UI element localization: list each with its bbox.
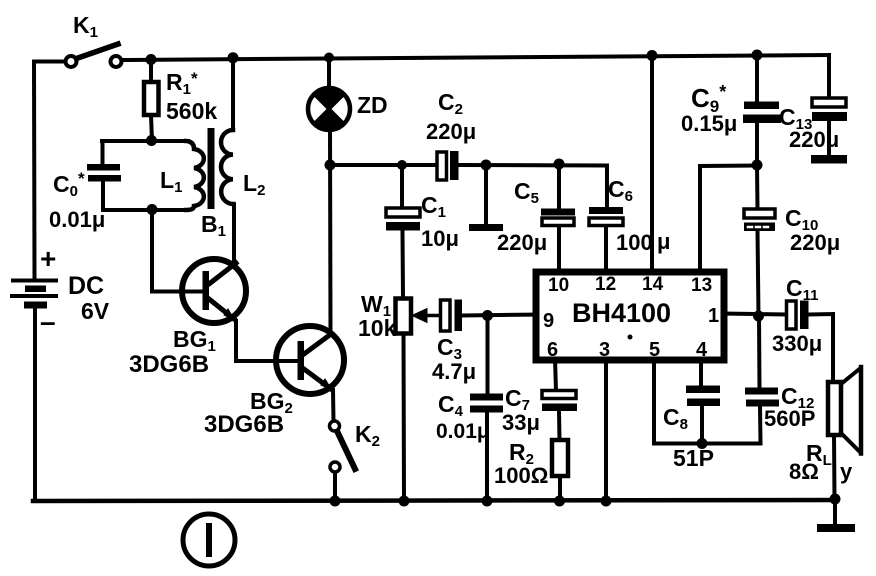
wire C2 node bar stub bbox=[484, 165, 488, 224]
svg-text:13: 13 bbox=[691, 275, 712, 296]
wire C9 bottom stub bbox=[755, 123, 759, 165]
node tank top bbox=[146, 135, 157, 146]
wire pin3 to ground rail bbox=[604, 358, 608, 501]
capacitor C5 bbox=[541, 209, 575, 216]
wire C12 bottom stub bbox=[758, 406, 763, 443]
node ZD bottom bbox=[325, 160, 336, 171]
svg-text:14: 14 bbox=[642, 274, 664, 295]
lamp ZD bbox=[308, 88, 350, 130]
switch K2 bbox=[330, 421, 340, 431]
node tank bottom bbox=[147, 204, 158, 215]
wire pin4 to C8 bbox=[699, 358, 703, 386]
capacitor C8 bbox=[686, 386, 720, 394]
wire top rail to pin14 bbox=[650, 56, 654, 276]
wire W1 bottom rail bbox=[402, 333, 407, 501]
inductor L1 bbox=[186, 141, 204, 210]
battery B+ bbox=[10, 279, 58, 309]
wire C0 top stub bbox=[101, 141, 105, 164]
svg-text:y: y bbox=[840, 459, 853, 484]
wire pin5 down and C8/C12 bottom rail bbox=[654, 358, 761, 444]
svg-text:μ: μ bbox=[657, 229, 670, 254]
C13 terminal bar bbox=[811, 155, 847, 164]
core B1 bbox=[208, 128, 215, 209]
capacitor C3 bbox=[441, 300, 451, 331]
svg-text:560k: 560k bbox=[166, 98, 217, 124]
capacitor C1 bbox=[386, 208, 420, 217]
svg-text:10μ: 10μ bbox=[421, 226, 459, 251]
svg-text:51P: 51P bbox=[673, 445, 714, 471]
wire R1 bottom stub bbox=[151, 115, 152, 141]
wire bottom ground rail bbox=[33, 500, 835, 501]
node C9 bottom bbox=[752, 160, 763, 171]
svg-text:ZD: ZD bbox=[357, 92, 388, 118]
node C1 top bbox=[397, 160, 407, 170]
wire C9 top stub bbox=[755, 55, 759, 102]
node top rail at pin14 wire bbox=[647, 50, 658, 61]
figure number circle 1 bbox=[183, 514, 235, 566]
node R2 ground bbox=[554, 496, 565, 507]
capacitor C13 bbox=[812, 98, 846, 107]
wire speaker to ground rail bbox=[832, 435, 837, 499]
wire battery bottom to ground rail bbox=[33, 309, 37, 501]
wire top rail left segment bbox=[34, 60, 65, 64]
svg-text:4.7μ: 4.7μ bbox=[432, 359, 476, 384]
svg-text:0.01μ: 0.01μ bbox=[49, 207, 105, 232]
svg-text:10k: 10k bbox=[358, 315, 397, 341]
switch K1 bbox=[66, 56, 77, 67]
wire BG2 emitter to K2 bbox=[331, 390, 336, 421]
capacitor C11 bbox=[787, 301, 797, 329]
wire L2 top stub bbox=[231, 58, 235, 130]
wire tank top rail bbox=[102, 139, 188, 143]
svg-text:3: 3 bbox=[599, 339, 610, 361]
wire ZD bottom to BG2 collector bbox=[328, 129, 333, 333]
node pin3 ground bbox=[601, 496, 612, 507]
svg-text:5: 5 bbox=[649, 339, 660, 361]
svg-text:1: 1 bbox=[708, 305, 719, 327]
wire C5 to pin10 bbox=[557, 225, 561, 275]
svg-text:–: – bbox=[40, 306, 56, 337]
capacitor C2 bbox=[437, 152, 447, 180]
node C4 ground bbox=[482, 496, 493, 507]
resistor R1 bbox=[144, 82, 159, 115]
svg-text:0.01μ: 0.01μ bbox=[436, 420, 490, 443]
wire R2 to ground rail bbox=[558, 476, 562, 501]
capacitor C0 bbox=[87, 164, 121, 182]
node top rail at C9 bbox=[752, 50, 763, 61]
wire top rail main bbox=[121, 55, 829, 60]
wire C8 bottom stub bbox=[700, 406, 704, 444]
wire tank to BG1 base bbox=[152, 210, 202, 292]
node speaker ground bbox=[830, 494, 841, 505]
capacitor C12 bbox=[745, 388, 778, 395]
wire C5 top stub bbox=[557, 164, 561, 209]
wire C13 top corner bbox=[827, 55, 831, 98]
node top rail at L2 bbox=[228, 52, 239, 63]
wire C2 right to C6 corner bbox=[459, 165, 607, 207]
svg-text:9: 9 bbox=[543, 310, 554, 332]
potentiometer W1 bbox=[396, 299, 412, 334]
electrode bar at C2 node bbox=[469, 224, 503, 231]
wire C6 to pin12 bbox=[604, 225, 608, 275]
svg-text:330μ: 330μ bbox=[772, 331, 822, 356]
wire ZD top stub bbox=[327, 58, 331, 87]
svg-text:10: 10 bbox=[548, 275, 569, 296]
wire C7 to R2 bbox=[557, 411, 562, 440]
capacitor C7 bbox=[542, 391, 576, 399]
transistor BG2 bbox=[276, 326, 344, 394]
wire pin1 to C11 bbox=[722, 314, 786, 315]
wire C9 node to pin13 bbox=[700, 166, 757, 276]
wire C10 top stub bbox=[755, 166, 760, 210]
node W1 ground bbox=[399, 496, 410, 507]
node C2 right bbox=[481, 160, 492, 171]
transistor BG1 bbox=[182, 259, 246, 323]
svg-text:6V: 6V bbox=[81, 298, 110, 324]
svg-text:220μ: 220μ bbox=[790, 230, 840, 255]
wire C1 top stub bbox=[400, 165, 404, 208]
wire BG1 emitter to BG2 base bbox=[236, 321, 297, 361]
node C8 bottom bbox=[697, 438, 708, 449]
resistor R2 bbox=[552, 440, 568, 476]
svg-text:4: 4 bbox=[696, 339, 708, 361]
wire C1 bottom to W1 bbox=[401, 231, 406, 298]
wire pin6 to C7 bbox=[555, 358, 556, 391]
node top rail at ZD bbox=[324, 53, 334, 63]
wire C13 bottom stub bbox=[827, 121, 831, 155]
svg-text:3DG6B: 3DG6B bbox=[204, 411, 284, 438]
node C5 top bbox=[554, 159, 565, 170]
wire tank bottom rail bbox=[103, 208, 188, 212]
wire C12 top stub bbox=[757, 316, 762, 388]
svg-text:BH4100: BH4100 bbox=[572, 298, 671, 328]
svg-text:100Ω: 100Ω bbox=[494, 463, 548, 488]
svg-text:220μ: 220μ bbox=[426, 119, 476, 144]
scan speck inside IC bbox=[628, 335, 633, 340]
node K2 ground bbox=[330, 496, 341, 507]
node pin1 C10 bbox=[753, 311, 764, 322]
wire R1 top stub bbox=[149, 60, 153, 83]
inductor L2 bbox=[221, 130, 234, 204]
ground bbox=[817, 524, 855, 532]
svg-text:6: 6 bbox=[547, 339, 558, 361]
capacitor C9 bbox=[744, 102, 779, 110]
wire C4 top stub bbox=[486, 316, 490, 394]
svg-text:DC: DC bbox=[68, 272, 104, 300]
capacitor C6 bbox=[589, 207, 623, 214]
wire C4 bottom stub bbox=[485, 412, 489, 501]
svg-text:33μ: 33μ bbox=[502, 410, 540, 435]
wire C0 bottom stub bbox=[101, 181, 105, 210]
wire mid horizontal rail y165 bbox=[330, 163, 436, 167]
svg-text:12: 12 bbox=[595, 274, 616, 295]
wire C10 to pin1 node bbox=[758, 231, 759, 316]
svg-text:220μ: 220μ bbox=[497, 230, 547, 255]
capacitor C4 bbox=[470, 394, 503, 401]
wire L2 bottom to BG1 collector bbox=[232, 205, 236, 263]
capacitor C10 bbox=[744, 209, 775, 218]
svg-text:560P: 560P bbox=[764, 406, 815, 431]
wire ground symbol stem bbox=[833, 499, 837, 524]
svg-text:+: + bbox=[40, 243, 56, 274]
svg-text:3DG6B: 3DG6B bbox=[129, 351, 209, 378]
wire C11 to speaker corner bbox=[809, 314, 833, 382]
svg-text:0.15μ: 0.15μ bbox=[681, 111, 737, 136]
node C3 pin9 bbox=[482, 310, 493, 321]
wire left vertical to battery bbox=[32, 62, 37, 279]
svg-text:100: 100 bbox=[616, 230, 653, 255]
wire pin9 stub bbox=[463, 315, 541, 316]
speaker RL bbox=[828, 367, 861, 454]
wire K2 to ground rail bbox=[333, 472, 337, 501]
svg-text:220μ: 220μ bbox=[789, 127, 839, 152]
IC U1 BH4100 bbox=[536, 272, 724, 360]
svg-text:8Ω: 8Ω bbox=[789, 459, 819, 484]
node top rail at R1 bbox=[146, 54, 157, 65]
